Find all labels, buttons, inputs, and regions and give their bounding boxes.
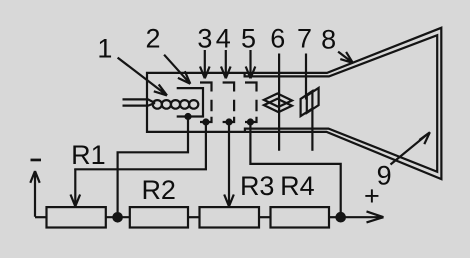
wire: cathode to R1/R2 junction: [118, 117, 188, 213]
negative supply arrow (up): [30, 171, 39, 217]
wire: R1 to R2: [106, 216, 130, 218]
svg-text:7: 7: [297, 23, 312, 53]
heater lead wires (left, entering tube base): [123, 99, 156, 105]
wire: grid G2 to R3 wiper (with arrow): [224, 122, 234, 206]
horizontal deflection plates (element 6, upper sheet): [264, 94, 292, 107]
junction node: + rail (dot2): [335, 212, 346, 223]
junction dot: grid G3 lead: [247, 118, 254, 125]
wire: R4 to plus terminal: [329, 216, 341, 218]
potentiometer R1 body: [47, 207, 106, 227]
svg-text:+: +: [364, 181, 380, 211]
svg-text:2: 2: [145, 23, 160, 53]
svg-text:R1: R1: [71, 140, 106, 170]
svg-text:5: 5: [241, 23, 256, 53]
pointer arrow for label 8: [338, 52, 353, 63]
grid G2 (element 4, dashed cylinder): [223, 83, 235, 123]
vertical deflection plates (element 7, right sheet): [307, 88, 319, 113]
potentiometer R3 body: [200, 207, 260, 227]
svg-text:R3: R3: [240, 171, 275, 201]
wire: grid G1 to R1 wiper: [75, 122, 206, 170]
heater filament coil (element 1): [153, 100, 199, 109]
svg-text:3: 3: [197, 23, 212, 53]
junction dot: grid G2 lead: [225, 118, 232, 125]
svg-text:R4: R4: [280, 171, 315, 201]
cathode bracket (element 2): [177, 88, 203, 116]
lead wire for plates 6: [278, 54, 280, 151]
wire: R2 to R3: [188, 216, 200, 218]
wire: grid G3 to + rail: [250, 122, 340, 212]
junction dot: grid G1 lead: [202, 118, 209, 125]
pointer arrow for label 5: [246, 50, 256, 78]
vertical deflection plates (element 7, left sheet): [301, 91, 313, 116]
wire: minus terminal to R1: [35, 216, 47, 218]
junction dot: cathode lead: [184, 113, 191, 120]
svg-text:6: 6: [270, 23, 285, 53]
lead wire for plates 7 (lower plate lead): [311, 110, 313, 151]
grid G3 (element 5, dashed cylinder): [245, 83, 257, 123]
wire: R3 to R4: [259, 216, 271, 218]
resistor R2 body: [130, 207, 188, 227]
pointer arrow for label 1: [118, 58, 167, 96]
positive output arrow (right): [341, 211, 384, 222]
CRT envelope inner wall (funnel inner line and screen inner line): [245, 35, 438, 172]
CRT envelope outer wall (neck, funnel, screen): [147, 28, 441, 179]
resistor R4 body: [271, 207, 330, 227]
svg-text:1: 1: [97, 33, 112, 63]
svg-text:4: 4: [216, 23, 231, 53]
junction node: R1/R2 (dot1): [112, 212, 123, 223]
pointer arrow for label 4: [221, 50, 231, 78]
pointer arrow for label 3: [200, 50, 210, 78]
svg-text:8: 8: [321, 25, 336, 55]
control grid G1 (element 3, dashed cylinder): [200, 83, 212, 123]
potentiometer R1 wiper arrow: [71, 169, 81, 206]
pointer arrow for label 9: [391, 132, 430, 164]
minus sign: [31, 159, 42, 162]
lead wire for plates 7 (upper plate lead): [305, 54, 307, 100]
pointer arrow for label 2: [164, 55, 190, 84]
svg-text:R2: R2: [141, 175, 176, 205]
horizontal deflection plates (element 6, lower sheet): [264, 99, 292, 112]
